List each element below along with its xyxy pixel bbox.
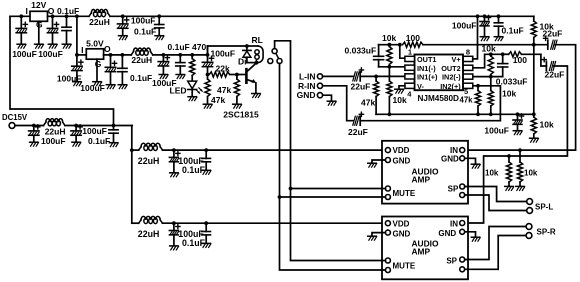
svg-text:22uF: 22uF (545, 69, 565, 79)
ground (0.1uF after coil) (176, 75, 185, 79)
ground (LED) (188, 97, 197, 101)
wire: amp2 GND right to ground (465, 232, 476, 237)
terminal SP-R upper (526, 224, 532, 230)
label GND (amp1 right) (441, 154, 459, 163)
svg-text:0.1uF: 0.1uF (502, 25, 524, 35)
wire: amp2 SP lower to SP-R lower (465, 236, 526, 270)
label V+ (452, 55, 461, 64)
label 0.1uF (DC row) (88, 136, 110, 146)
ground (47k left) (203, 104, 212, 108)
wire: amp1 SP lower to SP-L lower (465, 195, 527, 211)
node: junction cap top ch2 (501, 52, 505, 56)
capacitor C 0.1uF (top right) (494, 16, 503, 36)
wire: 12V regulator G pin to ground (38, 21, 40, 43)
label 0.1uF (top rail) (134, 27, 156, 37)
svg-text:AMP: AMP (412, 247, 431, 257)
wire: coupling cap to IN1(+) (360, 75, 405, 77)
label GND (amp2 right) (438, 229, 456, 238)
node: junction 470 resistor (190, 53, 194, 57)
terminal L-IN (317, 74, 322, 79)
label IN1(-) (417, 64, 436, 73)
wire: amp1 GND left to ground (372, 160, 385, 163)
svg-text:22uH: 22uH (89, 17, 110, 27)
resistor 10k (bias lower) (531, 114, 536, 137)
ground (10k SP-R load) (516, 186, 525, 190)
svg-text:47k: 47k (361, 98, 375, 108)
label 22uH (LC1) (138, 156, 160, 166)
wire: mute line B to amp1 MUTE lower (280, 196, 386, 198)
amp2 pin GNDR (460, 229, 465, 234)
label 10k (ch1 bias) (393, 95, 407, 105)
node: junction at 12V input cap (19, 14, 23, 18)
node: junction at 0.1uF top-left (65, 14, 69, 18)
svg-text:OUT2: OUT2 (441, 64, 460, 73)
capacitor C 22uF (L-IN coupling) (353, 68, 364, 81)
capacitor C 0.1uF (LC1) (202, 150, 211, 170)
resistor 47k (ch2 input bias) (475, 86, 480, 115)
amp2 pin MUTE1 (385, 258, 390, 263)
amp1 pin GND (385, 158, 390, 163)
svg-text:AMP: AMP (412, 174, 431, 184)
svg-text:22uH: 22uH (138, 229, 160, 239)
label G (12V reg ground pin) (36, 20, 43, 30)
svg-text:MUTE: MUTE (393, 261, 416, 270)
ground (10k SP-L load) (505, 186, 514, 190)
svg-text:100uF: 100uF (57, 74, 82, 84)
svg-text:VDD: VDD (393, 220, 410, 229)
label 12V (31, 0, 46, 10)
wire: 5V reg G pin to ground (96, 59, 98, 81)
capacitor C 100uF (12V regulator input) (16, 16, 27, 43)
svg-text:1: 1 (408, 47, 412, 56)
label G (5V reg ground pin) (95, 59, 102, 69)
label 100uF (bias) (484, 126, 509, 136)
ground (100uF 5V input) (73, 82, 82, 86)
label GND (amp1 left) (393, 156, 411, 165)
ground (amp2 GND left) (368, 236, 377, 240)
ground (5V reg G) (93, 82, 102, 86)
label SP (amp2) (446, 256, 457, 265)
label 47k (ch1) (361, 98, 375, 108)
label 0.033uF (ch1) (345, 46, 377, 56)
svg-text:100uF: 100uF (484, 126, 509, 136)
svg-text:0.033uF: 0.033uF (496, 77, 528, 87)
svg-text:0.1uF: 0.1uF (182, 238, 206, 248)
node: junction 0.1uF DC row / reg feed (112, 124, 116, 128)
node: junction right 10k on IN1 line (518, 148, 522, 152)
voltage regulator 12V box (30, 11, 48, 21)
wire: LC1 row to amp VDD (132, 149, 386, 151)
svg-text:10k: 10k (485, 169, 499, 178)
node: junction 0.1uF LC2 (204, 221, 208, 225)
node: junction 47k ch2 on bias rail (476, 112, 480, 116)
svg-text:GND: GND (441, 154, 459, 163)
label 100 (ch1) (406, 33, 420, 43)
wire: V- pin to ground (399, 86, 405, 89)
label DC15V (2, 113, 28, 122)
capacitor C 100uF (top right) (480, 15, 491, 36)
ground (100uF top right) (480, 37, 489, 41)
capacitor C 22uF (R-IN coupling) (353, 112, 364, 125)
wire: R-IN down to coupling cap (323, 86, 353, 121)
label IN (amp1) (450, 146, 458, 155)
svg-text:DC15V: DC15V (2, 113, 28, 122)
label IN2(+) (440, 82, 461, 91)
node: junction 0.1uF top right (497, 14, 501, 18)
label 10k (bias lower) (540, 120, 554, 130)
label 100uF (after coil) (152, 78, 177, 88)
ground (100uF 5V out) (106, 85, 115, 89)
svg-text:22uH: 22uH (131, 55, 152, 65)
capacitor C 0.033uF (ch1 feedback) (374, 45, 384, 67)
node: junction 100uF after 5V coil (162, 53, 166, 57)
capacitor C 100uF (after DC coil) (71, 125, 82, 142)
svg-text:5: 5 (464, 87, 468, 96)
label VDD (amp1) (393, 146, 410, 155)
terminal R-IN (317, 83, 322, 88)
node: junction mute A at amp1 (289, 187, 293, 191)
ground (amp1 GND left) (368, 163, 377, 167)
node: junction timing cap / 22k / 47k (206, 73, 210, 77)
node: junction fb top ch1 (388, 43, 392, 47)
svg-text:0.1uF: 0.1uF (88, 136, 110, 146)
resistor 47k (base bleed) (234, 75, 239, 104)
label 470 (192, 42, 206, 52)
amp2 pin IN (460, 221, 465, 226)
wire: 5V row after inductor (153, 54, 208, 56)
ground (12V reg G pin) (35, 44, 44, 48)
LED D (power indicator) (188, 76, 203, 97)
capacitor C 100uF (DC input) (29, 125, 40, 142)
wire: jog from DC row up to 12V regulator input column (10, 16, 114, 125)
label AUDIO (amp2) (412, 239, 439, 249)
resistor 10k (SP-L load) (506, 156, 511, 186)
svg-text:O: O (104, 44, 111, 54)
capacitor C 100uF (5V output) (105, 55, 116, 84)
wire: DC15V row (15, 125, 44, 127)
diode Di (relay flyback) (243, 46, 257, 63)
label AMP (amp2) (412, 247, 431, 257)
node: junction L input bias (374, 75, 378, 79)
node: junction fb bottom ch2 (489, 75, 493, 79)
terminal SP-R lower (526, 233, 532, 239)
terminal SP-L lower (527, 208, 533, 214)
wire: ch1 node down to bias rail (533, 45, 535, 115)
node: junction ch1 out node (532, 43, 536, 47)
label 10k (load left) (485, 169, 499, 178)
capacitor C 0.1uF (LC2) (202, 223, 211, 243)
svg-text:SP-R: SP-R (537, 227, 556, 236)
node: junction 100uF DC input (32, 124, 36, 128)
label pin 1 (408, 47, 412, 56)
wire: node to ch1 coupling cap (534, 44, 548, 46)
node: junction 0.1uF 5V out (121, 53, 125, 57)
node: junction 100uF top right (483, 14, 487, 18)
ground (100uF LC1) (170, 173, 179, 177)
svg-text:0.1uF: 0.1uF (134, 27, 156, 37)
label pin 8 (466, 47, 470, 56)
capacitor C 100uF (mute timing, series) (202, 46, 213, 75)
label 22uF (ch2 out) (545, 69, 565, 79)
label 22uH (LC2) (138, 229, 160, 239)
label O (5V reg output pin) (104, 44, 111, 54)
label AMP (amp1) (412, 174, 431, 184)
ground (0.1uF 12V output) (62, 44, 71, 48)
wire: bias rail (376, 113, 534, 115)
svg-text:0.033uF: 0.033uF (345, 46, 377, 56)
label pin 4 (407, 89, 412, 98)
svg-text:2SC1815: 2SC1815 (223, 109, 259, 119)
ground (amp1 GND right) (471, 164, 480, 168)
node: junction row2 into timer vertical (206, 53, 210, 57)
svg-text:10k: 10k (482, 44, 496, 54)
label 10k (pullup) (540, 22, 554, 32)
capacitor C 0.033uF (ch2 feedback) (498, 54, 508, 76)
label 0.1uF (12V output) (57, 6, 79, 16)
svg-text:470: 470 (192, 42, 206, 52)
node: junction 100uF after DC coil (74, 124, 78, 128)
capacitor C 100uF (bias rail) (513, 114, 524, 130)
label MUTE (amp2) (393, 261, 416, 270)
svg-text:RL: RL (252, 35, 263, 45)
amp2 pin VDD (385, 221, 390, 226)
label Di (238, 57, 247, 67)
wire: amp1 SP upper to SP-L upper (465, 187, 527, 202)
label 22uH (top rail) (89, 17, 110, 27)
ground (0.1uF top right) (494, 37, 503, 41)
wire: ch2 out to amp2 IN (right edge) (465, 66, 568, 223)
resistor 100 (ch2 output series) (503, 52, 541, 57)
svg-text:47k: 47k (460, 96, 474, 105)
svg-text:IN2(+): IN2(+) (440, 82, 461, 91)
label 10k (ch2 bias) (502, 88, 516, 98)
relay contact NO (277, 59, 282, 64)
svg-text:22uH: 22uH (138, 156, 160, 166)
label +100uF (after DC coil) (82, 126, 107, 136)
svg-text:VDD: VDD (393, 146, 410, 155)
svg-text:8: 8 (466, 47, 470, 56)
wire: relay common up and over (275, 41, 291, 189)
ground (0.1uF LC1) (202, 170, 211, 174)
ground (amp2 GND right) (471, 237, 480, 241)
svg-text:22uH: 22uH (45, 127, 66, 137)
svg-text:G: G (95, 59, 102, 69)
resistor 100 (ch1 output series) (403, 42, 534, 47)
svg-text:SP: SP (446, 256, 457, 265)
label +100uF (top rail) (131, 16, 156, 26)
amp2 pin GND (385, 230, 390, 235)
terminal GND (input) (317, 93, 322, 98)
ground (100uF top rail) (119, 36, 128, 40)
node: junction LC2 tap (0, 0, 1, 1)
transistor Q 2SC1815 (NPN) (246, 63, 256, 93)
wire: 5V reg input wire (77, 54, 86, 56)
svg-text:12V: 12V (31, 0, 46, 10)
wire: amp1 GND right to ground (465, 158, 476, 163)
svg-text:I: I (81, 45, 83, 55)
capacitor C 100uF (after 5V coil) (158, 55, 169, 74)
relay contact armature (276, 53, 279, 58)
svg-text:IN1(-): IN1(-) (417, 64, 436, 73)
relay contact common (272, 49, 277, 54)
wire: amp2 GND left to ground (372, 233, 385, 236)
wire: base wire (237, 74, 247, 76)
svg-text:NJM4580D: NJM4580D (418, 94, 460, 103)
wire: 5V output row (104, 54, 132, 56)
label 100uF (5V out) (80, 83, 105, 93)
node: junction left 10k load on IN2 line (507, 154, 511, 158)
label 10k (ch2 fb) (482, 44, 496, 54)
relay contact NC (open) (268, 59, 273, 64)
resistor 470 (190, 55, 195, 76)
label 100uF (DC input) (41, 136, 66, 146)
amp2 pin MUTE2 (385, 268, 390, 273)
svg-text:GND: GND (393, 229, 411, 238)
label 100uF (12V input cap) (12, 49, 37, 59)
svg-text:100uF: 100uF (38, 49, 63, 59)
svg-text:GND: GND (438, 229, 456, 238)
capacitor C 100uF (top rail) (118, 16, 129, 35)
node: junction 10k ch2 on bias rail (489, 112, 493, 116)
svg-text:100uF: 100uF (12, 49, 37, 59)
svg-text:GND: GND (393, 156, 411, 165)
label GND (input) (297, 90, 316, 100)
label SP (amp1) (448, 185, 459, 194)
node: junction fb top ch2 (489, 52, 493, 56)
label VDD (amp2) (393, 220, 410, 229)
amp2 pin SP1 (460, 257, 465, 262)
svg-text:22uF: 22uF (351, 81, 371, 91)
amp2 pin SP2 (460, 267, 465, 272)
svg-text:O: O (48, 6, 55, 16)
svg-text:0.1uF: 0.1uF (130, 73, 152, 83)
node: junction 100uF 5V out (109, 53, 113, 57)
wire: rail corner down to 10k pullup (533, 16, 535, 21)
svg-text:22uF: 22uF (348, 127, 368, 137)
capacitor C 0.1uF (5V output) (118, 55, 127, 84)
resistor 10k (ch1 feedback) (387, 45, 392, 67)
node: junction 100uF LC1 (172, 148, 176, 152)
svg-text:LED: LED (170, 86, 187, 96)
wire: mute line B down to amp2 MUTE lower (280, 197, 386, 270)
label AUDIO (amp1) (412, 166, 439, 176)
amp1 pin MUTE1 (385, 186, 390, 191)
svg-text:SP: SP (448, 185, 459, 194)
capacitor C 100uF (LC1) (169, 150, 180, 172)
voltage regulator 5.0V box (86, 49, 103, 59)
ground (12V input cap) (17, 44, 26, 48)
label 100uF (mute timing) (211, 49, 236, 59)
label 0.1uF (top right) (502, 25, 524, 35)
label 47k (left) (211, 95, 225, 105)
ground (100uF after coil) (159, 75, 168, 79)
node: junction fb bottom ch1 (388, 65, 392, 69)
ground (12V output cap) (48, 44, 57, 48)
label O (12V reg output pin) (48, 6, 55, 16)
svg-text:10k: 10k (524, 169, 538, 178)
wire: L-IN to coupling cap (323, 75, 353, 77)
label I (12V reg input pin) (26, 6, 28, 16)
resistor 47k (left bleed) (205, 75, 210, 104)
svg-text:100uF: 100uF (41, 136, 66, 146)
node: junction 10k on bias rail (388, 112, 392, 116)
svg-text:IN1(+): IN1(+) (417, 73, 438, 82)
wire: ch2 feedback bottom row to IN2(-) (473, 76, 503, 78)
svg-text:47k: 47k (211, 95, 225, 105)
node: junction LC1 tap (130, 148, 134, 152)
label IN1(+) (417, 73, 438, 82)
svg-text:IN2(-): IN2(-) (442, 73, 461, 82)
resistor 10k (ch1 out pullup) (531, 21, 536, 45)
label 100uF (5V input) (57, 74, 82, 84)
ground (100uF LC2) (170, 246, 179, 250)
svg-text:I: I (26, 6, 28, 16)
label LED (170, 86, 187, 96)
wire: OUT1 pin to feedback node (400, 45, 405, 59)
capacitor C 100uF (5V input) (72, 55, 83, 81)
svg-text:SP-L: SP-L (535, 202, 553, 211)
resistor 10k (ch1 IN- bias) (387, 67, 392, 115)
svg-text:OUT1: OUT1 (417, 55, 436, 64)
svg-text:10k: 10k (393, 95, 407, 105)
label 22uF (R-IN) (348, 127, 368, 137)
wire: 5V row corner up to relay feed (207, 46, 209, 55)
label 5.0V (86, 39, 104, 49)
label 100 (ch2) (513, 55, 527, 65)
capacitor C 0.1uF (DC row) (109, 126, 118, 143)
ground (input GND) (327, 101, 336, 105)
inductor 22uH (5V row) (131, 48, 153, 55)
label 0.033uF (ch2) (496, 77, 528, 87)
wire: LC2 row to amp VDD (132, 222, 386, 224)
ground (0.1uF DC row) (109, 143, 118, 147)
label 22uF (ch1 out) (543, 29, 563, 39)
node: junction 0.1uF after 5V coil (178, 53, 182, 57)
audio amp A2 box (382, 217, 468, 280)
wire: relay NO contact down (mute line B) (279, 64, 281, 198)
ground (0.1uF LC2) (202, 243, 211, 247)
ground (47k right) (233, 104, 242, 108)
capacitor C 0.1uF (12V output) (62, 16, 71, 43)
svg-text:0.1uF: 0.1uF (182, 165, 206, 175)
label 100uF (LC1) (178, 156, 204, 166)
label NJM4580D (418, 94, 460, 103)
amp1 pin MUTE2 (385, 195, 390, 200)
ground (0.1uF top rail) (155, 36, 164, 40)
label L-IN (299, 71, 316, 81)
label 0.1uF (LC1) (182, 165, 206, 175)
label RL (252, 35, 263, 45)
svg-text:GND: GND (297, 90, 316, 100)
label 0.1uF (after coil) (168, 42, 190, 52)
svg-text:100uF: 100uF (131, 16, 156, 26)
amp1 pin VDD (385, 148, 390, 153)
ground (bias 100uF) (513, 131, 522, 135)
label 2SC1815 (223, 109, 259, 119)
capacitor C 22uF (ch1 output coupling) (544, 36, 558, 49)
wire: R input row under IC (360, 86, 500, 121)
amp1 pin IN (460, 148, 465, 153)
resistor 10k (SP-R load) (517, 150, 522, 186)
amp1 pin SP1 (460, 184, 465, 189)
resistor 22k (base series) (209, 72, 237, 77)
svg-text:47k: 47k (217, 85, 231, 95)
svg-text:10k: 10k (382, 33, 396, 43)
label 22uF (L-IN) (351, 81, 371, 91)
svg-text:MUTE: MUTE (393, 189, 416, 198)
label 22uH (5V row) (131, 55, 152, 65)
capacitor C 100uF (12V regulator output) (47, 16, 58, 43)
